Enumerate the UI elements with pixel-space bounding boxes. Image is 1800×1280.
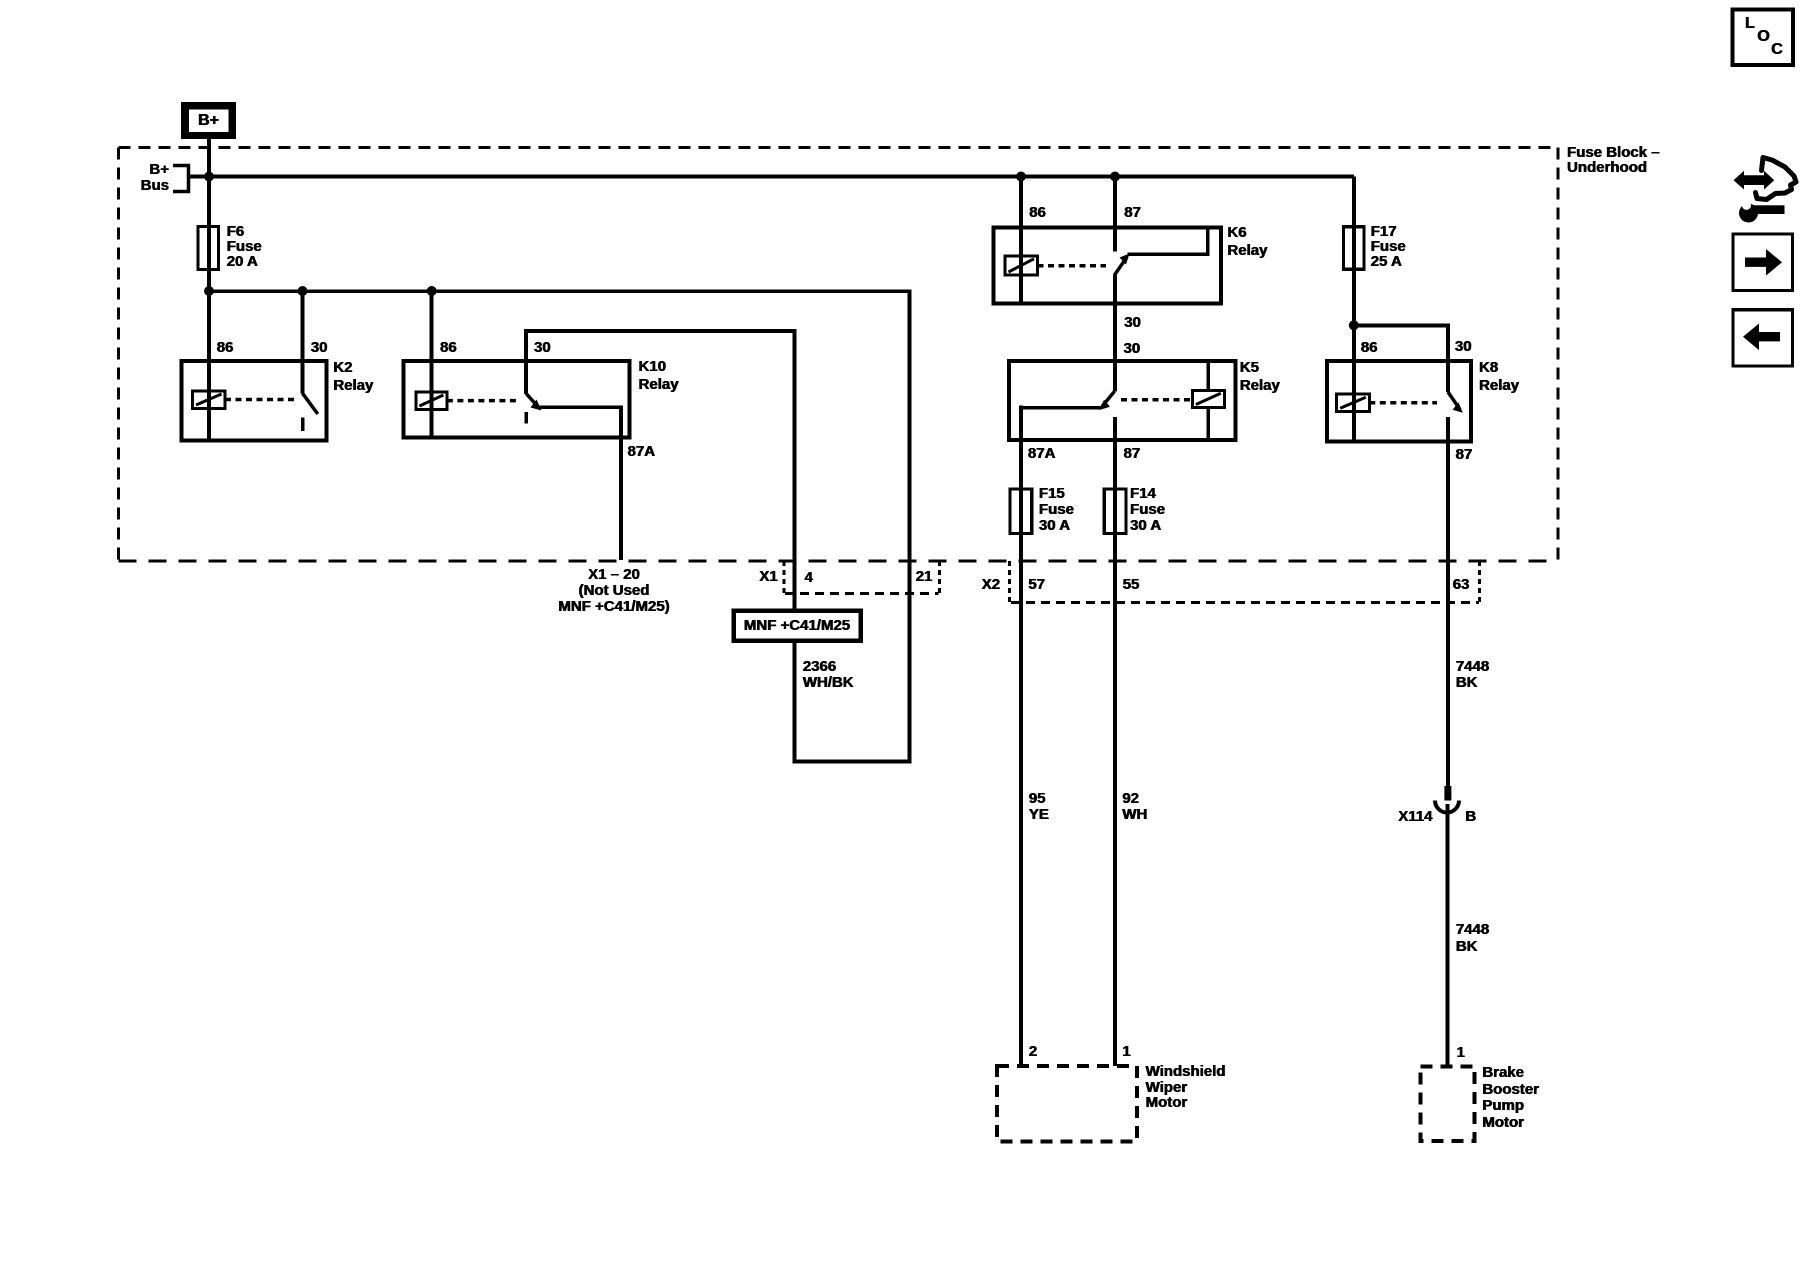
relay K5 coil slash [1196,393,1221,404]
label F17 Fuse 25 A [1371,224,1406,269]
pin label K6 87 [1124,205,1141,221]
label B+ Bus [125,162,169,193]
relay K8 box [1327,361,1471,442]
relay K6 box [994,228,1221,304]
pin label X2 57 [1028,577,1045,593]
pin label K10 87A [628,444,656,460]
pin label wiper 2 [1029,1044,1037,1060]
connector X114 terminal blade [1444,786,1451,801]
relay K5 switch arrowhead [1100,400,1111,410]
relay K2 switch stub [301,418,305,432]
relay K2 coil slash [196,394,222,405]
icon back arrow box [1733,310,1792,366]
relay K6 87 contact line [1128,229,1208,254]
node feed-K2 30 junction [298,286,308,296]
label windshield wiper motor [1146,1064,1226,1111]
relay K10 coil slash [419,395,443,406]
pin label K6 86 [1029,205,1046,221]
wire label 2366 WH/BK [803,659,854,691]
node bus-K6 87 junction [1110,172,1120,182]
pin label X1 21 [916,569,933,585]
pin label X114 B [1465,809,1476,825]
relay K8 coil [1337,394,1370,411]
wire K6 pin87 stub [1113,177,1117,252]
label X2 [982,577,1000,593]
B+ bus bracket [173,166,189,192]
relay K6 coil [1005,256,1038,275]
relay K8 coil-switch dashed link [1369,401,1437,405]
windshield wiper motor box [997,1066,1137,1142]
wire K10 pin86 drop [430,291,434,437]
label B+ [181,102,236,139]
label X1-20 not used [545,567,683,615]
node feed-F6 junction [204,286,214,296]
label K6 Relay [1227,224,1267,260]
wire K10 87A drop to X1-20 [619,406,623,561]
connector MNF +C41/M25 box [734,611,861,641]
relay K8 coil slash [1340,397,1366,408]
relay K10 87A contact line [539,406,621,410]
pin label X1 4 [805,570,813,586]
relay K10 switch blade [526,394,538,408]
label F15 Fuse 30 A [1039,486,1074,534]
pin label brake booster 1 [1457,1045,1465,1061]
relay K6 coil slash [1009,259,1035,272]
icon LOC box [1732,10,1793,66]
wire K6 pin86 [1019,177,1023,304]
label brake booster pump motor [1482,1065,1539,1131]
pin label K10 30 [534,340,551,356]
label X1 [759,569,777,585]
pin label K8 30 [1455,339,1472,355]
pin label K5 30 [1124,341,1141,357]
fuse block underhood dashed border [119,147,1559,561]
relay K6 switch arrowhead [1120,254,1130,265]
wire X114 to brake booster motor [1446,804,1450,1066]
relay K2 box [181,361,326,441]
fuse F6 [198,227,219,270]
label F6 Fuse 20 A [227,224,262,269]
node F17-K8 junction [1349,320,1359,330]
wire F17 drop to K8 coil [1352,177,1356,442]
pin label K5 87 [1124,446,1141,462]
label K2 Relay [333,359,373,395]
icon LOC letter O [1757,29,1769,45]
label X114 [1394,809,1433,825]
wire K10 pin30 to X1-4 MNF [526,331,795,612]
relay K10 coil-switch dashed link [447,399,517,403]
icon LOC letter C [1771,42,1783,58]
wire label 92 WH [1122,791,1147,822]
fuse F17 [1344,227,1364,270]
wire K5 pin87 to wiper motor [1113,417,1117,1066]
relay K5 coil pin upper [1207,363,1211,391]
pin label K6 30 [1124,315,1141,331]
label K10 Relay [639,358,679,394]
relay K5 box [1009,361,1236,440]
label MNF +C41/M25 [735,611,859,640]
connector X2 bracket [1009,561,1479,602]
label K8 Relay [1479,359,1519,395]
wire B+ drop to K2 coil [207,139,211,441]
label F14 Fuse 30 A [1130,486,1165,534]
wire K6 pin30 to K5 [1113,275,1117,392]
relay K5 coil pin lower [1207,408,1211,439]
relay K2 switch blade [303,393,318,414]
pin label K8 87 [1456,447,1473,463]
connector X114 socket cup [1435,801,1459,813]
icon forward arrow box [1733,234,1792,291]
relay K5 coil-switch dashed link [1121,398,1192,402]
relay K6 switch blade [1115,257,1128,275]
icon LOC letter L [1745,16,1755,32]
wire label 7448 BK lower [1456,922,1489,955]
wire label 95 YE [1029,791,1049,822]
wire feed line y291 [209,289,910,293]
pin label K8 86 [1361,340,1378,356]
icon harness routing [1734,158,1797,223]
pin label K2 30 [311,340,328,356]
node feed-K10 86 junction [427,286,437,296]
pin label K10 86 [440,340,457,356]
connector X1 bracket [784,561,940,593]
pin label wiper 1 [1122,1044,1130,1060]
relay K2 coil-switch dashed link [225,398,296,402]
relay K5 coil [1192,390,1224,407]
relay K5 87A contact line [1023,406,1101,410]
pin label X2 55 [1123,577,1140,593]
label Fuse Block - Underhood [1567,145,1660,175]
wire K5 87A to wiper motor [1019,406,1023,1067]
relay K10 switch stub [524,412,528,424]
fuse F14 [1104,489,1126,534]
node bus-K6 86 junction [1016,172,1026,182]
relay K10 coil [416,392,447,409]
pin label K2 86 [217,340,234,356]
wire label 7448 BK upper [1456,659,1489,692]
pin label X2 63 [1453,577,1470,593]
wire MNF loop bottom [795,290,910,762]
label K5 Relay [1240,359,1280,395]
relay K8 switch arrowhead [1453,403,1463,413]
relay K2 coil [193,391,226,409]
relay K5 switch blade [1102,391,1115,406]
pin label K5 87A [1028,446,1056,462]
fuse F15 [1010,489,1032,534]
wire K8 pin30 branch [1354,325,1448,392]
wire K8 pin87 to X114 [1446,417,1450,786]
relay K8 switch blade [1448,392,1460,410]
wire B+ bus horizontal [189,175,1354,179]
wire K2 pin30 drop [301,290,305,394]
relay K6 coil-switch dashed link [1038,264,1107,268]
brake booster pump motor box [1420,1066,1474,1141]
node bus-B+ junction [204,172,214,182]
battery terminal B+ box [181,102,236,139]
relay K10 switch arrowhead [531,400,542,411]
relay K10 box [403,361,629,438]
